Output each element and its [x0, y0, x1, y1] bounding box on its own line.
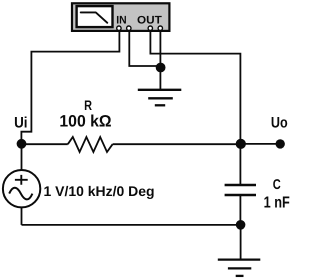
wire node Ui to resistor: [22, 143, 68, 145]
source V1 sine wave: [9, 188, 32, 200]
terminal OUT+: [148, 26, 152, 30]
Bode plotter U1 body: [72, 3, 169, 31]
ground GND1 (scope): [138, 90, 182, 106]
svg-text:OUT: OUT: [137, 14, 162, 26]
node bottom junction: [236, 220, 246, 230]
wire Uo stub: [241, 143, 278, 145]
resistor R1 zigzag: [68, 137, 113, 152]
terminal OUT-: [158, 26, 162, 30]
source V1 circle: [3, 170, 40, 207]
svg-text:R: R: [84, 98, 92, 113]
svg-text:1 V/10 kHz/0 Deg: 1 V/10 kHz/0 Deg: [44, 183, 155, 199]
wire bottom node to ground: [240, 225, 242, 260]
svg-text:1 nF: 1 nF: [264, 194, 290, 211]
source V1 bottom stem: [21, 207, 23, 225]
wire OUT+ to right rail: [150, 31, 240, 145]
svg-text:Uo: Uo: [271, 114, 288, 131]
Bode plotter display screen: [77, 6, 113, 27]
wire resistor to node Uo: [113, 143, 241, 145]
junction scope ground node: [156, 63, 166, 73]
svg-text:Ui: Ui: [14, 114, 27, 131]
svg-text:IN: IN: [116, 14, 126, 26]
terminal IN-: [127, 26, 131, 30]
terminal IN+: [117, 26, 121, 30]
source V1 top stem: [21, 144, 23, 170]
capacitor C1 bottom stem: [239, 195, 241, 225]
wire node Uo to capacitor: [239, 144, 241, 185]
node Uo junction: [236, 139, 246, 149]
Bode plotter response curve: [81, 12, 108, 22]
svg-text:C: C: [273, 177, 281, 193]
node Uo terminal dot: [276, 139, 285, 148]
source V1 plus sign: [15, 175, 28, 185]
wire OUT- down to ground: [159, 31, 161, 90]
svg-text:100 kΩ: 100 kΩ: [59, 113, 111, 131]
wire IN- to ground node: [129, 31, 160, 66]
node Ui junction: [17, 139, 27, 149]
wire bottom rail: [22, 224, 241, 226]
capacitor C1 plates: [225, 185, 256, 195]
ground GND2 (output): [218, 260, 260, 276]
wire IN+ to left rail to node Ui: [21, 31, 119, 144]
